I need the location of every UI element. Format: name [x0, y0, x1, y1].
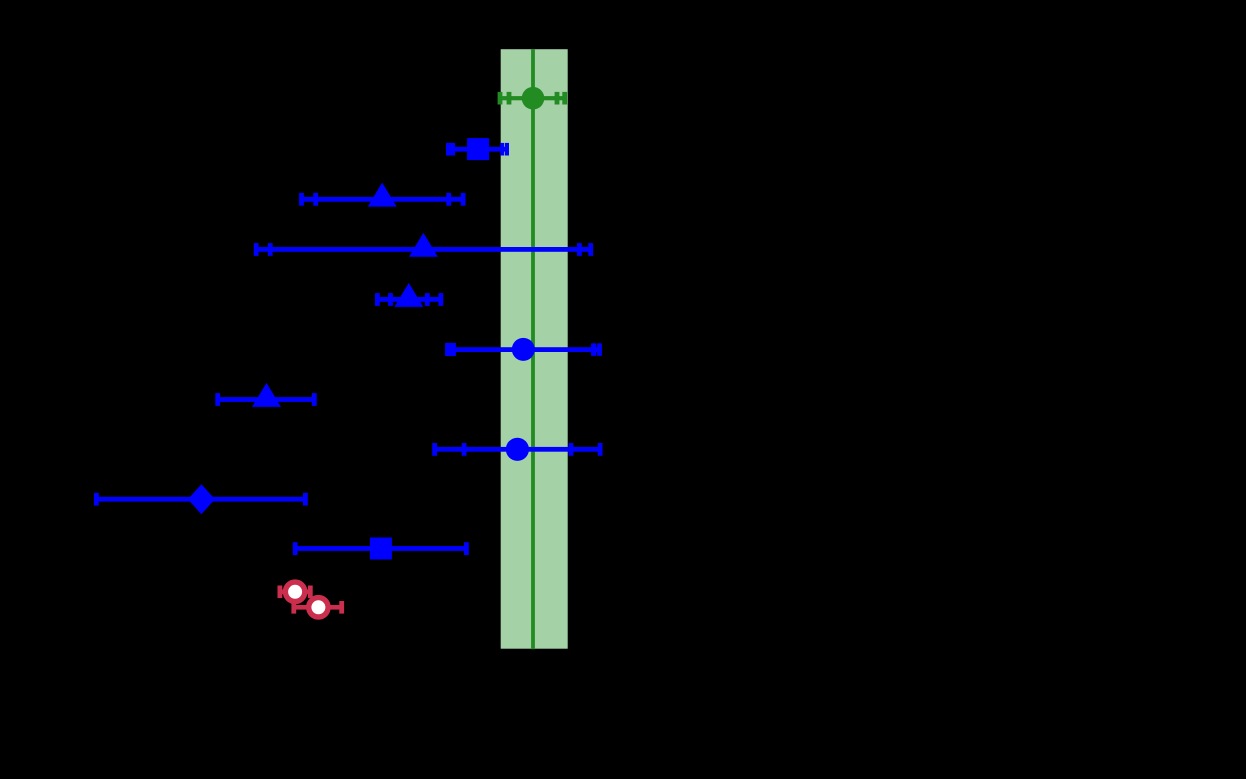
row 5: blue errorbar with triangle marker	[375, 283, 443, 307]
row 7: blue errorbar with triangle marker	[215, 383, 316, 407]
row 1: green errorbar with circle marker	[498, 87, 567, 110]
row 8: blue errorbar with circle marker	[432, 438, 602, 461]
row 6: blue errorbar with circle marker	[445, 338, 602, 361]
row 11a: red errorbar with open circle marker	[278, 582, 313, 601]
green reference vertical line	[531, 49, 535, 649]
row 11b: red errorbar with open circle marker	[291, 598, 344, 617]
row 2: blue errorbar with square marker	[446, 138, 509, 160]
row 10: blue errorbar with square marker	[293, 538, 469, 560]
green reference band	[501, 49, 568, 649]
row 4: blue errorbar with triangle marker	[254, 233, 593, 257]
row 9: blue errorbar with diamond marker	[94, 484, 308, 514]
row 3: blue errorbar with triangle marker	[299, 183, 465, 207]
